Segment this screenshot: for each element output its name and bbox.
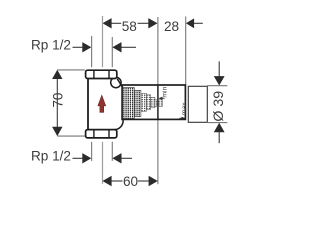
svg-text:Ø 39: Ø 39	[211, 91, 227, 122]
part: wall sleeve rectangle	[188, 86, 207, 122]
wire: top port right arrow tail	[121, 46, 136, 48]
wire: 70 dim vertical line	[56, 72, 58, 134]
texture: spindle step 3	[141, 93, 147, 111]
arrow: 58 right arrowhead	[148, 18, 157, 28]
arrow: top port right arrowhead	[112, 42, 121, 52]
wire: Rp bottom leader line	[73, 157, 83, 159]
wire: diameter arrow bottom tail	[218, 132, 220, 143]
wire: min pointer tail	[162, 97, 164, 99]
texture: spindle step 5	[151, 97, 155, 107]
arrow: 60 left arrowhead	[103, 176, 112, 186]
arrow: max pointer	[182, 117, 186, 120]
part: bonnet circle boss under top nut	[111, 77, 121, 87]
wire: top dimension line 58 right tail	[138, 22, 149, 24]
arrow: 70 top arrowhead	[52, 70, 62, 79]
wire: 60 dim line left segment	[111, 180, 122, 182]
svg-text:max.: max.	[181, 100, 188, 115]
wire: extension line x=185.6 upper	[185, 17, 187, 85]
svg-text:70: 70	[50, 92, 65, 108]
wire: extension line x=158 lower	[157, 120, 159, 185]
arrow: 70 bottom arrowhead	[52, 127, 62, 136]
arrow: 60 right arrowhead	[149, 176, 158, 186]
svg-text:58: 58	[122, 19, 137, 34]
svg-text:Rp 1/2: Rp 1/2	[31, 149, 71, 164]
arrow: diameter down arrowhead	[214, 76, 225, 85]
wire: 70 bottom extension line	[57, 135, 85, 137]
wire: diameter arrow top tail	[218, 61, 220, 76]
wire: max pointer tail	[179, 117, 181, 119]
wire: top dimension line 58 left tail	[111, 22, 121, 24]
arrow: Rp top leader arrowhead	[82, 42, 91, 52]
frame: min/max housing box	[122, 85, 185, 119]
arrow: Rp bottom leader arrowhead	[82, 153, 91, 163]
node: centerline bottom (pipe axis)	[102, 142, 104, 184]
svg-text:28: 28	[164, 19, 179, 34]
arrow: 28 right outside arrowhead	[186, 18, 194, 28]
wire: extension line left port thread left	[91, 36, 93, 67]
wire: 60 dim line right segment	[138, 180, 149, 182]
node: centerline top (pipe axis)	[102, 16, 104, 67]
wire: Rp top leader line	[73, 46, 83, 48]
svg-text:min: min	[162, 86, 169, 97]
wire: extension line left port thread right	[111, 37, 113, 67]
wire: min divider line in box	[157, 85, 159, 119]
texture: knurled cone tier 1	[123, 88, 135, 119]
body: funnel top straight edge	[117, 79, 123, 88]
nut: top hex nut	[86, 70, 117, 78]
svg-text:60: 60	[123, 174, 139, 189]
wire: diameter top extension line	[207, 85, 227, 87]
wire: 70 top extension line	[57, 69, 85, 71]
arrow: 58 left arrowhead	[103, 18, 112, 28]
wire: diameter bottom extension line	[207, 122, 227, 124]
wire: extension line x=158 upper	[157, 17, 159, 85]
arrow: bottom port right arrowhead	[112, 153, 121, 163]
texture: spindle step 4	[146, 95, 150, 110]
wire: 28 arrow tail	[194, 22, 203, 24]
texture: knurled cone tier 2	[134, 90, 141, 116]
arrow: min pointer	[158, 97, 162, 100]
wire: bottom port thread ext right	[111, 142, 113, 161]
arrow: red flow direction arrow	[98, 95, 106, 112]
body: valve trunk	[87, 79, 89, 130]
svg-text:Rp 1/2: Rp 1/2	[31, 38, 71, 53]
body: funnel bottom arc	[114, 119, 123, 129]
wire: bottom port thread ext left	[91, 142, 93, 161]
texture: spindle tip step 6	[155, 100, 163, 107]
arrow: diameter up arrowhead	[214, 123, 225, 132]
nut: bottom hex nut	[86, 130, 117, 138]
wire: bottom port right arrow tail	[121, 157, 132, 159]
